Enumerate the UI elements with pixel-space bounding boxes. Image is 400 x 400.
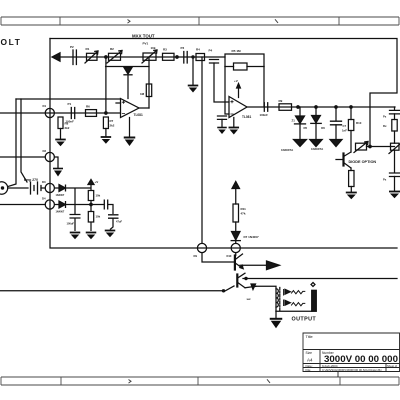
svg-text:DIODE OPTION: DIODE OPTION bbox=[349, 160, 377, 164]
svg-text:100uF: 100uF bbox=[67, 221, 75, 225]
svg-text:D5: D5 bbox=[304, 126, 308, 130]
svg-text:R10: R10 bbox=[356, 121, 362, 125]
svg-text:2k2: 2k2 bbox=[65, 126, 70, 130]
svg-text:TL081: TL081 bbox=[134, 113, 143, 117]
svg-text:File:: File: bbox=[306, 368, 312, 372]
svg-text:R6: R6 bbox=[86, 105, 90, 109]
svg-text:TL081: TL081 bbox=[242, 115, 251, 119]
svg-text:R7: R7 bbox=[110, 119, 114, 123]
svg-text:Title: Title bbox=[306, 334, 313, 339]
svg-text:MXX TOUT: MXX TOUT bbox=[132, 34, 155, 39]
svg-text:P2: P2 bbox=[70, 45, 74, 49]
svg-text:P4: P4 bbox=[209, 49, 213, 53]
svg-text:Bmp 27V: Bmp 27V bbox=[24, 178, 39, 182]
svg-text:Size: Size bbox=[306, 351, 313, 355]
svg-text:R3: R3 bbox=[163, 47, 167, 51]
svg-text:C7: C7 bbox=[343, 124, 347, 128]
svg-text:D4: D4 bbox=[42, 196, 46, 200]
svg-text:1N4007: 1N4007 bbox=[56, 210, 65, 213]
svg-text:Rx: Rx bbox=[383, 124, 387, 128]
svg-text:D1: D1 bbox=[43, 104, 47, 108]
svg-text:10k: 10k bbox=[96, 215, 101, 219]
svg-text:R8: R8 bbox=[65, 121, 69, 125]
svg-text:D6: D6 bbox=[321, 126, 325, 130]
svg-text:R4: R4 bbox=[196, 48, 200, 52]
svg-text:Px: Px bbox=[383, 115, 387, 119]
svg-text:sw: sw bbox=[247, 297, 252, 301]
svg-text:P1: P1 bbox=[68, 102, 72, 106]
svg-text:47uF: 47uF bbox=[116, 219, 122, 223]
svg-text:A4: A4 bbox=[307, 358, 313, 363]
svg-text:1N4007A: 1N4007A bbox=[281, 148, 294, 152]
svg-text:1N4007A: 1N4007A bbox=[311, 147, 324, 151]
svg-text:10k: 10k bbox=[96, 194, 101, 198]
svg-text:1N4007: 1N4007 bbox=[56, 194, 65, 197]
svg-text:R11: R11 bbox=[241, 207, 247, 211]
svg-text:D9: D9 bbox=[194, 254, 198, 258]
svg-text:47k: 47k bbox=[241, 211, 246, 215]
svg-text:3000V 00 00 000: 3000V 00 00 000 bbox=[324, 354, 398, 364]
svg-text:D10: D10 bbox=[227, 254, 232, 258]
svg-text:2k2: 2k2 bbox=[110, 124, 115, 128]
svg-text:OLT: OLT bbox=[1, 37, 22, 47]
svg-text:10k: 10k bbox=[151, 46, 156, 50]
svg-text:R1: R1 bbox=[86, 47, 90, 51]
svg-text:1nF: 1nF bbox=[342, 128, 347, 132]
svg-text:D7 1N4007: D7 1N4007 bbox=[244, 235, 260, 239]
svg-text:R9: R9 bbox=[279, 99, 283, 103]
svg-text:D2: D2 bbox=[43, 149, 47, 153]
svg-text:Z1: Z1 bbox=[292, 119, 296, 123]
svg-text:1M: 1M bbox=[140, 92, 145, 96]
svg-text:C:\ADVSCH\3000V\3000V00 00.SCH: C:\ADVSCH\3000V\3000V00 00.SCH Drawn By: bbox=[322, 368, 383, 372]
svg-text:+V: +V bbox=[234, 79, 238, 83]
svg-text:R2: R2 bbox=[110, 47, 114, 51]
svg-text:P3: P3 bbox=[181, 46, 185, 50]
svg-text:D3: D3 bbox=[42, 180, 46, 184]
svg-text:OUTPUT: OUTPUT bbox=[292, 316, 317, 322]
svg-text:Px: Px bbox=[383, 177, 387, 181]
svg-text:PV1: PV1 bbox=[143, 41, 149, 45]
svg-text:+V: +V bbox=[95, 180, 99, 184]
svg-text:R5 1M: R5 1M bbox=[232, 49, 242, 53]
svg-text:Sheet of: Sheet of bbox=[387, 364, 397, 368]
svg-text:100nF: 100nF bbox=[260, 113, 269, 117]
